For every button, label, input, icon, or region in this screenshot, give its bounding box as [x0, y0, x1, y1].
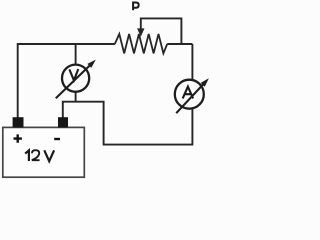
battery terminal + block — [13, 117, 24, 127]
potentiometer P resistor zigzag — [115, 34, 167, 53]
voltmeter letter V — [69, 69, 78, 80]
wire potentiometer right lead — [167, 43, 192, 45]
wiper arrowhead — [137, 28, 144, 36]
voltmeter V1 circle — [62, 65, 89, 92]
plus sign label — [14, 134, 22, 142]
voltmeter arrow — [56, 65, 91, 99]
ammeter A1 circle — [175, 80, 204, 109]
battery terminal - block — [58, 117, 68, 127]
battery value label 12 V : letter V — [44, 150, 54, 161]
wire middle: minus terminal to down-right corner — [63, 44, 193, 145]
wire wiper connection to right branch — [141, 18, 182, 44]
minus sign label — [54, 138, 60, 140]
ammeter arrow — [176, 84, 203, 113]
battery value label 12 V : digit 2 — [32, 150, 40, 160]
wire left and top: battery + up to top rail — [18, 44, 115, 118]
label P — [133, 3, 139, 11]
battery value label 12 V : digit 1 — [25, 150, 29, 161]
wire voltmeter top stub — [75, 44, 77, 102]
battery BT1 body — [3, 127, 85, 177]
ammeter letter A — [183, 87, 193, 99]
